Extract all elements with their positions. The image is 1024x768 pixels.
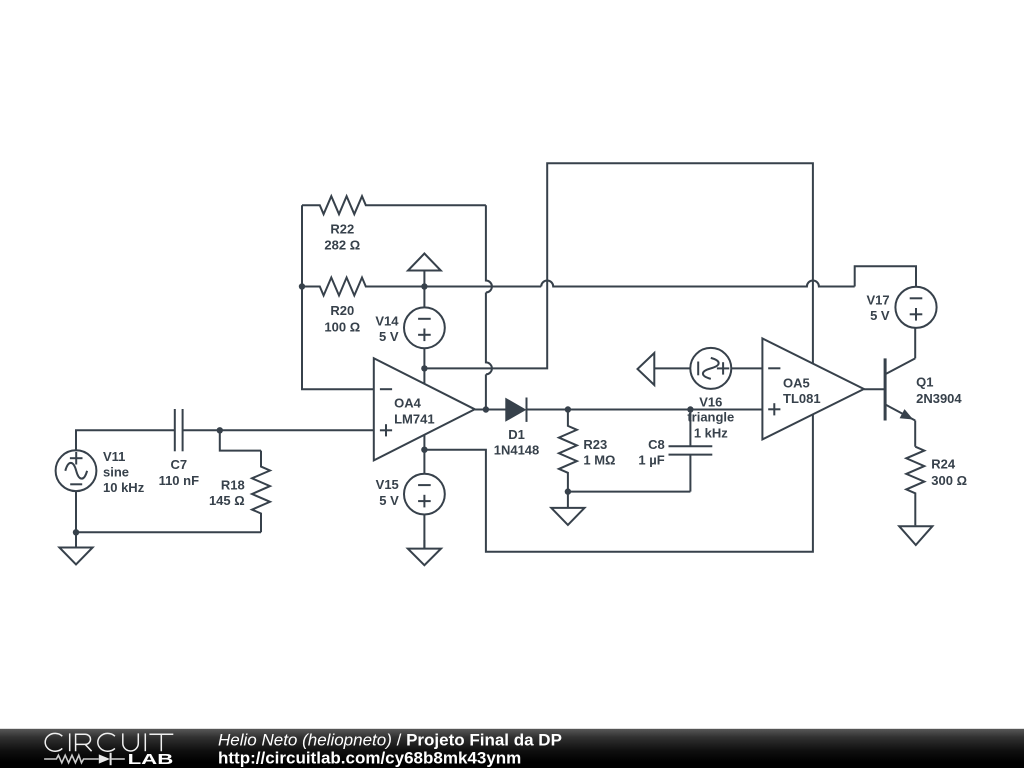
wire R22 to OA4 output (hops over rails) <box>486 205 492 409</box>
node junction C7/R18 <box>217 427 223 433</box>
svg-text:C8: C8 <box>648 437 665 452</box>
CircuitLab logo resistor glyph <box>44 755 99 763</box>
svg-text:1 µF: 1 µF <box>638 452 664 467</box>
wire V15 bottom to ground <box>423 515 425 549</box>
svg-text:1 MΩ: 1 MΩ <box>583 453 615 468</box>
svg-text:LAB: LAB <box>128 751 174 768</box>
svg-text:5 V: 5 V <box>870 308 890 323</box>
node junction OA4 V-/V15 <box>421 447 427 453</box>
svg-text:V11: V11 <box>103 449 125 464</box>
svg-text:110 nF: 110 nF <box>159 473 200 488</box>
resistor R20 and supply rail <box>302 278 541 296</box>
footer black bar <box>0 729 1024 768</box>
transistor Q1 2N3904 <box>884 358 887 420</box>
svg-text:5 V: 5 V <box>379 493 399 508</box>
wire C8 bottom to R23 bottom <box>568 491 691 493</box>
svg-text:1 kHz: 1 kHz <box>694 426 728 441</box>
svg-text:145 Ω: 145 Ω <box>209 493 245 508</box>
wire V14+ to top feedback box to OA5 V+ pin <box>424 163 813 368</box>
capacitor C7 <box>174 409 176 451</box>
resistor R18 <box>252 451 270 533</box>
svg-text:R24: R24 <box>931 457 956 472</box>
net flag arrow (left) at V16 <box>638 353 655 385</box>
svg-text:triangle: triangle <box>687 409 734 424</box>
svg-text:R23: R23 <box>583 437 607 452</box>
wire V14 bottom <box>423 348 425 368</box>
svg-text:V17: V17 <box>866 292 889 307</box>
svg-text:OA5: OA5 <box>783 375 810 390</box>
wire D1 to OA5 + input <box>527 409 763 411</box>
capacitor C8 <box>689 410 691 447</box>
node junction rail/V14 flag <box>421 283 427 289</box>
wire OA4 output <box>475 409 506 411</box>
svg-text:1N4148: 1N4148 <box>494 443 540 458</box>
svg-text:10 kHz: 10 kHz <box>103 480 145 495</box>
ground at V15 <box>423 540 425 549</box>
svg-text:Helio Neto (heliopneto) / Proj: Helio Neto (heliopneto) / Projeto Final … <box>218 730 562 749</box>
wire OA4 V- bus to OA5 V- pin <box>424 414 813 552</box>
node junction C8 top <box>687 406 693 412</box>
wire R18 bottom to V11 bottom <box>76 531 261 533</box>
voltage source V17 (5 V) <box>895 287 936 328</box>
node junction R20/R22 left <box>299 283 305 289</box>
wire V11 top to C7 <box>76 430 175 450</box>
voltage source V16 (triangle 1 kHz) <box>690 348 731 389</box>
wire C7 to OA4 noninverting input <box>183 429 374 431</box>
wire Q1 emitter to R24 <box>914 421 916 447</box>
svg-text:R22: R22 <box>330 221 354 236</box>
svg-text:OA4: OA4 <box>394 396 422 411</box>
wire supply rail with hops over feedback box sides <box>541 281 855 287</box>
wire V17 top to supply rail <box>855 266 916 286</box>
CircuitLab logo diode glyph <box>99 754 110 763</box>
svg-text:TL081: TL081 <box>783 391 821 406</box>
svg-text:R20: R20 <box>330 303 354 318</box>
node junction V11-/R18 bottom <box>73 529 79 535</box>
svg-text:LM741: LM741 <box>394 411 434 426</box>
svg-text:Q1: Q1 <box>916 375 933 390</box>
wire V16 to OA5 - input <box>731 367 762 369</box>
svg-text:C7: C7 <box>170 457 187 472</box>
ground at R24 <box>915 524 917 527</box>
voltage source V15 (5 V) <box>423 450 425 474</box>
resistor R22 <box>302 196 486 214</box>
op-amp OA5 TL081 <box>762 338 864 439</box>
op-amp OA4 LM741 <box>374 358 475 460</box>
svg-text:D1: D1 <box>508 427 525 442</box>
svg-text:V16: V16 <box>699 394 722 409</box>
svg-text:http://circuitlab.com/cy68b8mk: http://circuitlab.com/cy68b8mk43ynm <box>218 749 521 768</box>
voltage source V11 (sine 10 kHz) <box>56 450 97 491</box>
voltage source V14 (5 V) <box>423 287 425 308</box>
node junction V14/OA4 V+ pin <box>421 365 427 371</box>
svg-text:300 Ω: 300 Ω <box>931 473 967 488</box>
wire inverting-input net vertical <box>302 205 374 389</box>
wire Q1 collector to V17 <box>914 328 916 359</box>
diode D1 1N4148 <box>506 399 526 421</box>
wire junction down to R18 <box>220 430 261 450</box>
svg-text:282 Ω: 282 Ω <box>324 238 360 253</box>
wire OA4 V- supply stub <box>423 435 425 450</box>
net flag arrow (up) at V14 node <box>423 271 425 287</box>
svg-text:5 V: 5 V <box>379 329 399 344</box>
svg-text:100 Ω: 100 Ω <box>324 319 360 334</box>
svg-text:V14: V14 <box>375 314 399 329</box>
wire OA4 V+ supply stub <box>423 368 425 383</box>
node junction D1/R23 <box>565 406 571 412</box>
svg-text:R18: R18 <box>221 477 245 492</box>
svg-text:sine: sine <box>103 465 129 480</box>
wire OA5 output to Q1 base <box>864 388 885 390</box>
wire V11 bottom <box>75 491 77 532</box>
node junction OA4 output/R22 <box>483 406 489 412</box>
resistor R23 <box>559 410 577 492</box>
ground at R23 <box>567 492 569 508</box>
svg-text:V15: V15 <box>376 477 399 492</box>
svg-text:2N3904: 2N3904 <box>916 391 962 406</box>
node junction R23 bottom/C8/ground <box>565 488 571 494</box>
CircuitLab logo word CIRCUIT <box>45 733 173 751</box>
resistor R24 <box>906 447 924 526</box>
ground at V11 <box>75 532 77 547</box>
